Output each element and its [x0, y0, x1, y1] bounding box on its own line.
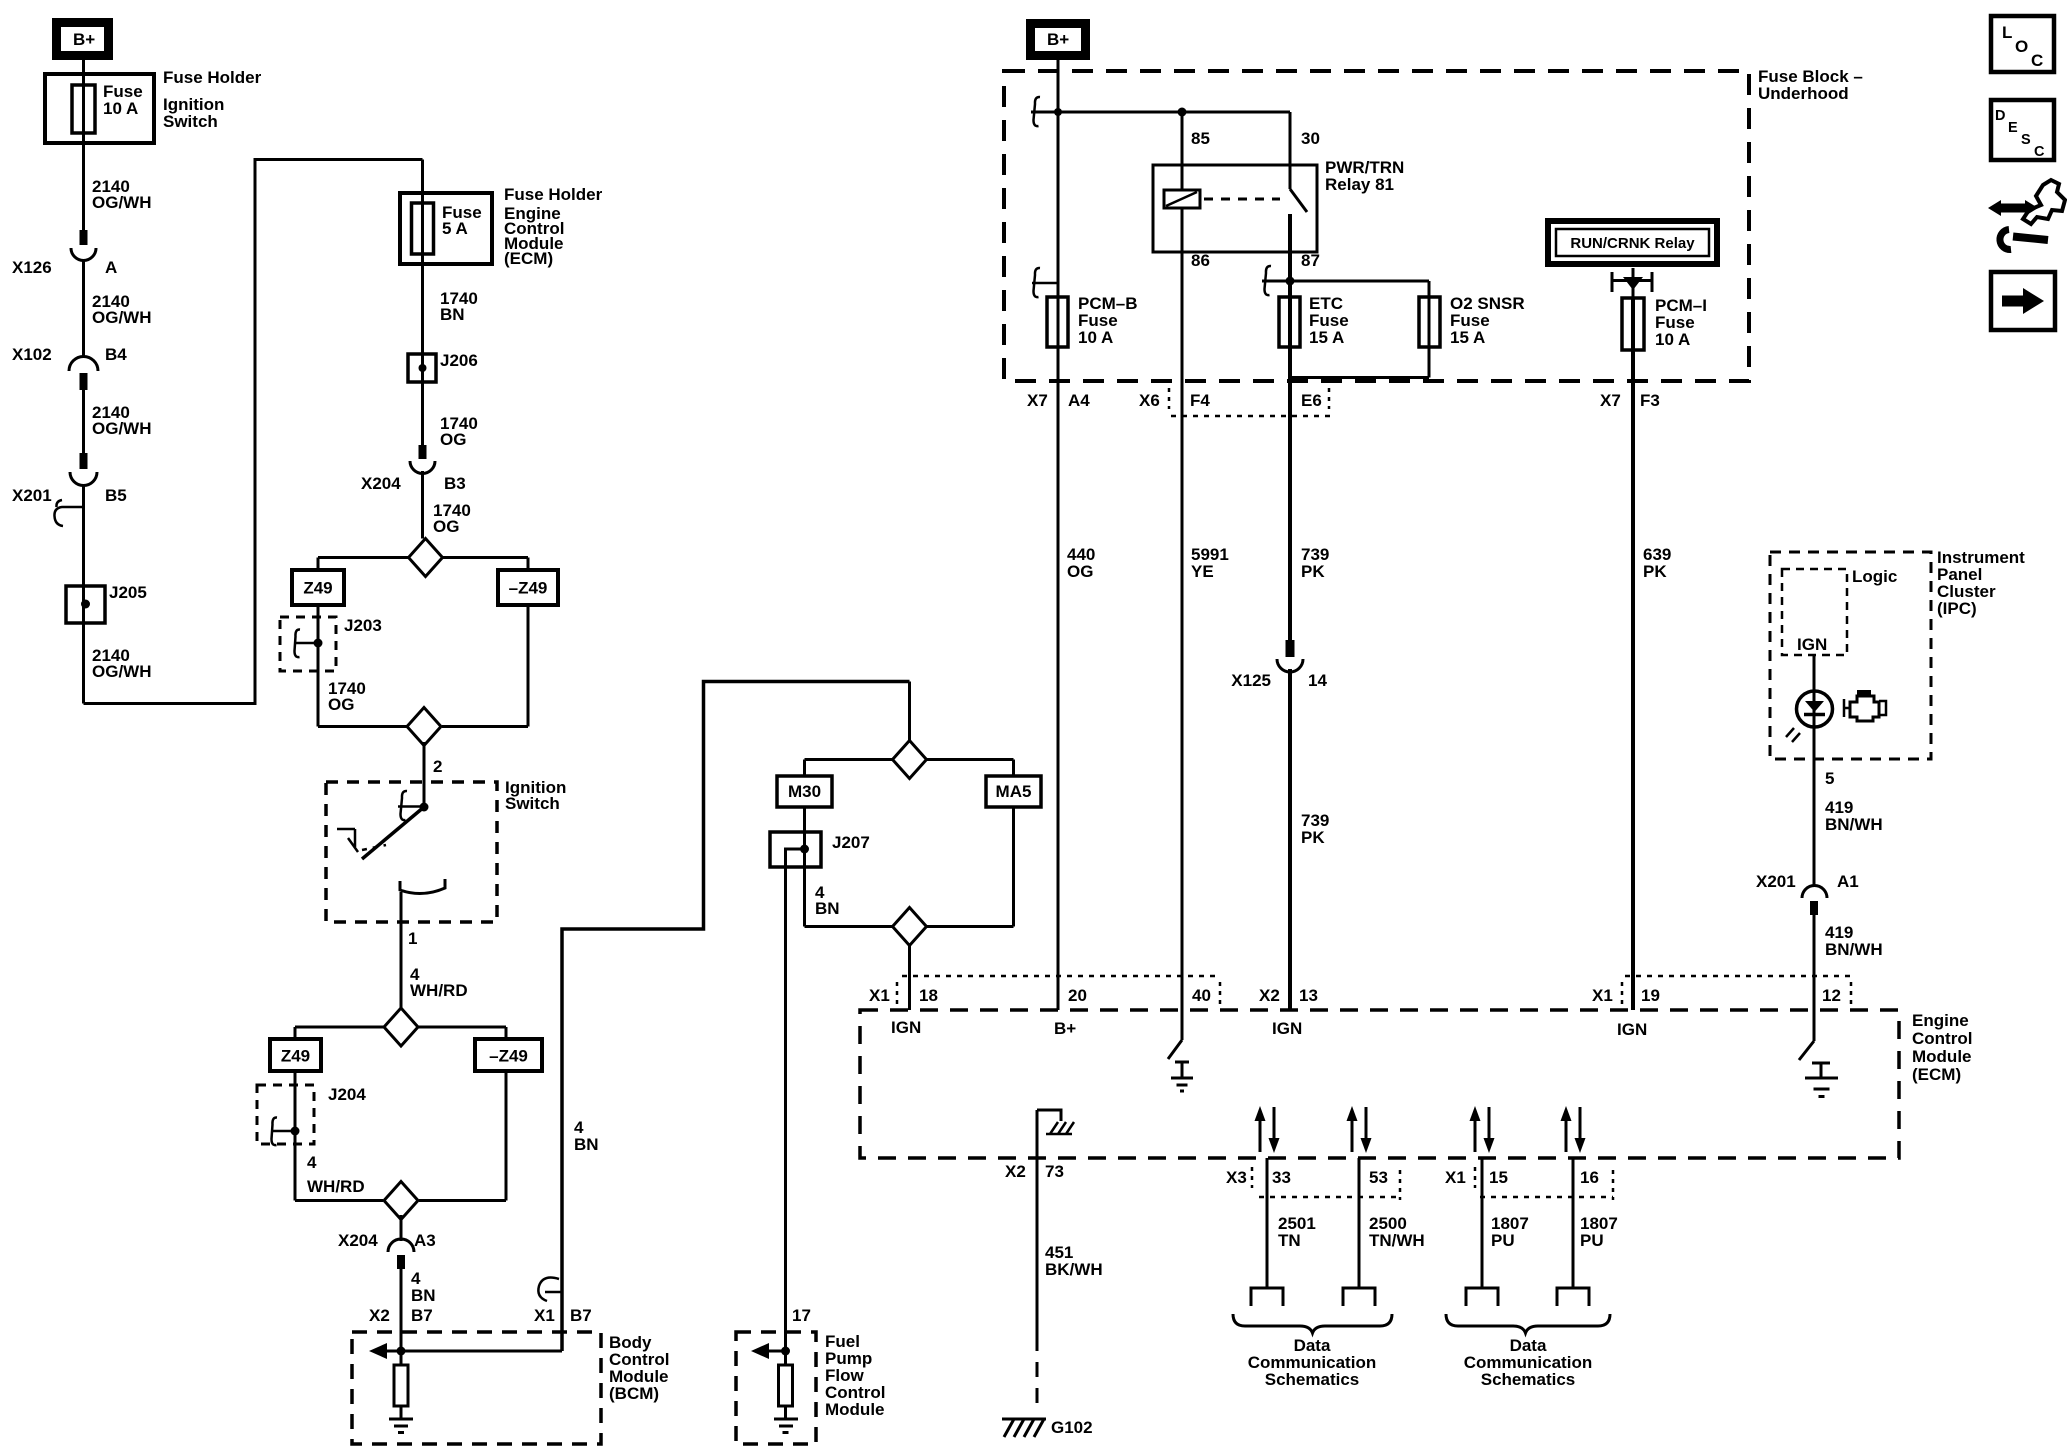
splice J205	[66, 583, 147, 623]
bidirectional arrows pin 16	[1561, 1106, 1586, 1153]
PWR/TRN relay 81	[1153, 158, 1404, 252]
svg-text:(ECM): (ECM)	[504, 249, 553, 268]
svg-text:BN: BN	[440, 305, 465, 324]
wire 451 BK/WH to G102	[1036, 1158, 1039, 1336]
svg-text:18: 18	[919, 986, 938, 1005]
fuse F (10A) symbol	[72, 85, 95, 133]
svg-text:M30: M30	[788, 782, 821, 801]
svg-text:WH/RD: WH/RD	[307, 1177, 365, 1196]
clip hook above PCM-B fuse	[1032, 268, 1058, 297]
svg-text:X2: X2	[1005, 1162, 1026, 1181]
svg-text:X1: X1	[869, 986, 890, 1005]
connector clip hook on wire	[54, 500, 83, 526]
net MA5	[986, 776, 1041, 807]
svg-text:(ECM): (ECM)	[1912, 1065, 1961, 1084]
svg-text:Z49: Z49	[281, 1047, 310, 1066]
svg-text:B5: B5	[105, 486, 127, 505]
svg-text:OG: OG	[1067, 562, 1093, 581]
svg-text:Schematics: Schematics	[1481, 1370, 1576, 1389]
svg-text:G102: G102	[1051, 1418, 1093, 1437]
svg-text:Underhood: Underhood	[1758, 84, 1849, 103]
off-page tab pin 33	[1251, 1288, 1283, 1306]
fuse holder (ECM)	[400, 185, 603, 268]
splitter diamond (M30/MA5)	[893, 741, 927, 779]
svg-text:B4: B4	[105, 345, 127, 364]
svg-text:IGN: IGN	[1272, 1019, 1302, 1038]
svg-text:B+: B+	[1054, 1019, 1076, 1038]
PCM-I fuse 10A	[1622, 296, 1707, 350]
svg-text:X125: X125	[1231, 671, 1271, 690]
relay coil	[1164, 190, 1200, 208]
svg-text:D: D	[1995, 108, 2005, 124]
svg-text:10 A: 10 A	[1655, 330, 1690, 349]
off-page tab pin 53	[1343, 1288, 1375, 1306]
net -Z49	[498, 570, 558, 605]
PCM-I fuse wire down pin F3	[1631, 298, 1635, 1010]
svg-text:TN: TN	[1278, 1231, 1301, 1250]
svg-text:19: 19	[1641, 986, 1660, 1005]
wire	[82, 390, 85, 453]
switch pivot junction	[420, 803, 429, 812]
svg-text:X1: X1	[1445, 1168, 1466, 1187]
svg-text:Control: Control	[1912, 1029, 1972, 1048]
switch blade	[362, 807, 424, 859]
net Z49 (lower)	[270, 1039, 321, 1071]
svg-text:17: 17	[792, 1306, 811, 1325]
splice J203	[280, 616, 382, 671]
RUN/CRNK relay	[1548, 221, 1717, 264]
svg-text:IGN: IGN	[1617, 1020, 1647, 1039]
serial data wires 33 53 15 16	[1267, 1158, 1573, 1288]
svg-text:PK: PK	[1301, 562, 1325, 581]
wire 4 BN from ignition switch feed	[562, 682, 910, 1352]
FPFCM ground	[774, 1419, 798, 1433]
battery feed B+ (fuse block)	[1026, 19, 1090, 60]
svg-text:Switch: Switch	[163, 112, 218, 131]
svg-text:X2: X2	[369, 1306, 390, 1325]
FPFCM internal node with arrow	[751, 1343, 790, 1359]
svg-text:(BCM): (BCM)	[609, 1384, 659, 1403]
ground G102	[1002, 1418, 1093, 1437]
svg-text:YE: YE	[1191, 562, 1214, 581]
svg-text:1: 1	[408, 929, 417, 948]
svg-text:B+: B+	[73, 30, 95, 49]
wires down	[295, 1071, 506, 1201]
svg-text:X201: X201	[12, 486, 52, 505]
indicator LED (MIL)	[1786, 691, 1833, 742]
svg-text:RUN/CRNK Relay: RUN/CRNK Relay	[1570, 235, 1695, 252]
svg-text:OG/WH: OG/WH	[92, 662, 152, 681]
svg-text:4: 4	[307, 1153, 317, 1172]
connector X125 pin 14	[1231, 640, 1327, 690]
PCM-B fuse 10A	[1047, 294, 1138, 347]
fuel pump flow control module	[736, 1332, 885, 1444]
svg-text:53: 53	[1369, 1168, 1388, 1187]
instrument panel cluster (IPC)	[1770, 548, 2025, 759]
svg-text:30: 30	[1301, 129, 1320, 148]
clip hook on X1 B7 wire	[538, 1278, 562, 1301]
svg-text:A4: A4	[1068, 391, 1090, 410]
FPFCM resistor	[779, 1365, 793, 1406]
svg-text:12: 12	[1822, 986, 1841, 1005]
svg-text:20: 20	[1068, 986, 1087, 1005]
connector sub-box F4/E6	[1168, 388, 1171, 409]
svg-text:Engine: Engine	[1912, 1011, 1969, 1030]
branch 87 to O2 fuse	[1262, 281, 1429, 378]
joiner diamond (lower)	[384, 1182, 418, 1220]
icon next arrow	[1991, 272, 2055, 330]
svg-text:X7: X7	[1600, 391, 1621, 410]
fixed contact	[337, 829, 358, 852]
svg-text:10 A: 10 A	[1078, 328, 1113, 347]
svg-text:–Z49: –Z49	[509, 579, 548, 598]
clip hook at 87 branch	[1265, 266, 1272, 295]
wire label 419 BN/WH (lower)	[1813, 915, 1816, 1010]
connector X201 pin A1	[1756, 872, 1859, 915]
svg-text:BN/WH: BN/WH	[1825, 940, 1883, 959]
splitter diamond (Z49 feed)	[409, 539, 443, 577]
svg-text:J207: J207	[832, 833, 870, 852]
svg-text:BN: BN	[411, 1286, 436, 1305]
svg-text:PU: PU	[1580, 1231, 1604, 1250]
svg-text:X204: X204	[338, 1231, 378, 1250]
connector X201 pin B5	[12, 453, 127, 505]
svg-text:14: 14	[1308, 671, 1327, 690]
connector sub-box X1 18-40	[902, 975, 1220, 978]
svg-text:X3: X3	[1226, 1168, 1247, 1187]
svg-text:Fuse Holder: Fuse Holder	[504, 185, 603, 204]
svg-text:C: C	[2031, 51, 2043, 70]
IPC logic block	[1782, 567, 1897, 655]
svg-text:87: 87	[1301, 251, 1320, 270]
bidirectional arrows pin 53	[1347, 1106, 1372, 1153]
brace data comm 1	[1233, 1314, 1392, 1333]
check engine icon	[1844, 690, 1886, 721]
svg-text:Relay 81: Relay 81	[1325, 175, 1394, 194]
body control module (BCM)	[352, 1332, 669, 1444]
svg-text:73: 73	[1045, 1162, 1064, 1181]
fuse holder (ignition switch)	[45, 68, 262, 143]
svg-text:15: 15	[1489, 1168, 1508, 1187]
svg-text:IGN: IGN	[891, 1018, 921, 1037]
svg-text:BN: BN	[574, 1135, 599, 1154]
splice J207	[770, 832, 870, 867]
branch to relay	[1031, 111, 1290, 114]
svg-text:BK/WH: BK/WH	[1045, 1260, 1103, 1279]
svg-text:F3: F3	[1640, 391, 1660, 410]
coil wire 85	[1181, 112, 1184, 190]
BCM ground	[389, 1419, 413, 1433]
net -Z49 (lower)	[475, 1039, 542, 1071]
svg-text:10 A: 10 A	[103, 99, 138, 118]
svg-text:X1: X1	[534, 1306, 555, 1325]
svg-text:5: 5	[1825, 769, 1834, 788]
icon DESC	[1991, 100, 2054, 160]
svg-text:PU: PU	[1491, 1231, 1515, 1250]
wire pin 1 down	[400, 892, 403, 1012]
svg-text:TN/WH: TN/WH	[1369, 1231, 1425, 1250]
connector X204 pin B3	[361, 445, 466, 493]
svg-text:X7: X7	[1027, 391, 1048, 410]
svg-text:X1: X1	[1592, 986, 1613, 1005]
net M30	[777, 776, 832, 807]
svg-text:Module: Module	[825, 1400, 885, 1419]
svg-text:PK: PK	[1643, 562, 1667, 581]
svg-text:C: C	[2034, 144, 2045, 160]
svg-text:OG: OG	[440, 430, 466, 449]
svg-text:OG: OG	[328, 695, 354, 714]
svg-text:Switch: Switch	[505, 794, 560, 813]
joiner diamond (M30/MA5)	[893, 908, 927, 946]
splitter diamond (lower Z49)	[384, 1008, 418, 1046]
wire B+ to fuse holder	[82, 58, 85, 230]
svg-text:X204: X204	[361, 474, 401, 493]
engine control module (ECM) box	[860, 1010, 1972, 1158]
svg-text:Z49: Z49	[303, 579, 332, 598]
svg-text:E6: E6	[1301, 391, 1322, 410]
svg-text:86: 86	[1191, 251, 1210, 270]
svg-text:OG/WH: OG/WH	[92, 308, 152, 327]
wire	[82, 486, 85, 704]
svg-text:85: 85	[1191, 129, 1210, 148]
svg-text:33: 33	[1272, 1168, 1291, 1187]
wire B+ into block / pin A4 feed	[1057, 58, 1060, 1010]
connector sub-box X1 19-12	[1625, 975, 1851, 978]
icon LOC	[1991, 16, 2054, 72]
connector X204 pin A3	[338, 1231, 436, 1269]
svg-text:B+: B+	[1047, 30, 1069, 49]
wire 4 BN to BCM	[400, 1269, 403, 1351]
svg-text:PK: PK	[1301, 828, 1325, 847]
svg-text:BN/WH: BN/WH	[1825, 815, 1883, 834]
pin 12 internal ground switch	[1799, 1010, 1838, 1097]
battery feed B+ (left)	[52, 18, 113, 60]
svg-text:J206: J206	[440, 351, 478, 370]
svg-text:15 A: 15 A	[1450, 328, 1485, 347]
svg-text:(IPC): (IPC)	[1937, 599, 1977, 618]
wire	[82, 260, 85, 357]
bidirectional arrows pin 15	[1470, 1106, 1495, 1153]
svg-text:O: O	[2015, 37, 2028, 56]
svg-text:B7: B7	[411, 1306, 433, 1325]
wire pin 18 IGN	[908, 944, 911, 1010]
ETC fuse wire down pin E6	[1288, 214, 1292, 1010]
svg-text:J205: J205	[109, 583, 147, 602]
wire corner path to ECM fuse holder	[84, 160, 423, 704]
fuse block underhood box	[1004, 67, 1863, 381]
svg-text:S: S	[2021, 132, 2031, 148]
svg-text:B7: B7	[570, 1306, 592, 1325]
svg-text:L: L	[2002, 23, 2012, 42]
wire to X204 A3	[400, 1215, 403, 1241]
svg-text:X2: X2	[1259, 986, 1280, 1005]
clip hook at feed branch	[1034, 97, 1041, 126]
svg-text:E: E	[2008, 120, 2018, 136]
svg-text:A3: A3	[414, 1231, 436, 1250]
svg-text:X102: X102	[12, 345, 52, 364]
BCM resistor	[394, 1365, 408, 1406]
ignition switch	[326, 778, 566, 922]
wires down from M30 / MA5	[805, 807, 1014, 927]
svg-text:J204: J204	[328, 1085, 366, 1104]
svg-text:2: 2	[433, 757, 442, 776]
svg-text:BN: BN	[815, 899, 840, 918]
clip hook at pivot	[398, 791, 424, 820]
off-page tab pin 16	[1557, 1288, 1589, 1306]
svg-text:J203: J203	[344, 616, 382, 635]
connector X126 pin A	[12, 230, 117, 277]
O2 SNSR fuse 15A	[1419, 294, 1525, 347]
svg-text:13: 13	[1299, 986, 1318, 1005]
svg-text:OG/WH: OG/WH	[92, 419, 152, 438]
joiner diamond	[407, 708, 441, 746]
svg-text:Schematics: Schematics	[1265, 1370, 1360, 1389]
connector X102 pin B4	[12, 345, 127, 390]
relay link dashed	[1204, 198, 1280, 201]
coil wire 86 down	[1181, 208, 1184, 1010]
svg-text:5 A: 5 A	[442, 219, 468, 238]
svg-text:–Z49: –Z49	[489, 1047, 528, 1066]
svg-text:WH/RD: WH/RD	[410, 981, 468, 1000]
off-page tab pin 15	[1466, 1288, 1498, 1306]
run contact arc	[400, 879, 445, 894]
svg-text:OG: OG	[433, 517, 459, 536]
wire 4 BN to fuel pump module	[784, 867, 787, 1351]
splice J206	[408, 351, 478, 382]
connector sub-box X3 33/53	[1251, 1167, 1254, 1188]
bidirectional arrows pin 33	[1255, 1106, 1280, 1153]
wire into ECM fuse holder	[421, 160, 424, 539]
pin 73 internal chassis ground	[1037, 1110, 1074, 1158]
wire to Z49 branches	[318, 558, 528, 571]
svg-text:MA5: MA5	[996, 782, 1032, 801]
wire pin 2 to ignition switch	[423, 742, 426, 807]
pin 40 internal ground switch	[1168, 1010, 1193, 1091]
svg-text:Logic: Logic	[1852, 567, 1897, 586]
svg-text:X201: X201	[1756, 872, 1796, 891]
relay switch 30-87	[1290, 112, 1307, 212]
svg-text:Fuse Holder: Fuse Holder	[163, 68, 262, 87]
wire logic to LED	[1813, 655, 1816, 886]
svg-text:15 A: 15 A	[1309, 328, 1344, 347]
net Z49	[292, 570, 344, 605]
svg-text:A: A	[105, 258, 117, 277]
icon tools (arrow + wrench)	[1988, 180, 2065, 250]
RUN/CRNK relay contact symbol	[1612, 268, 1652, 298]
svg-text:F4: F4	[1190, 391, 1210, 410]
svg-text:B3: B3	[444, 474, 466, 493]
splice J204	[257, 1085, 366, 1145]
node	[1178, 108, 1187, 117]
BCM internal node with arrow	[369, 1343, 562, 1359]
svg-text:X6: X6	[1139, 391, 1160, 410]
svg-text:OG/WH: OG/WH	[92, 193, 152, 212]
svg-text:IGN: IGN	[1797, 635, 1827, 654]
brace data comm 2	[1446, 1314, 1610, 1333]
svg-text:A1: A1	[1837, 872, 1859, 891]
fuse (5A) symbol	[412, 203, 434, 254]
connector sub-box X1 15/16	[1474, 1167, 1477, 1188]
svg-text:Module: Module	[1912, 1047, 1972, 1066]
svg-text:40: 40	[1192, 986, 1211, 1005]
svg-text:X126: X126	[12, 258, 52, 277]
wire to M30/MA5 splitter	[908, 682, 911, 743]
svg-text:16: 16	[1580, 1168, 1599, 1187]
ETC fuse 15A	[1279, 294, 1349, 347]
wire Z49 down	[318, 605, 528, 727]
